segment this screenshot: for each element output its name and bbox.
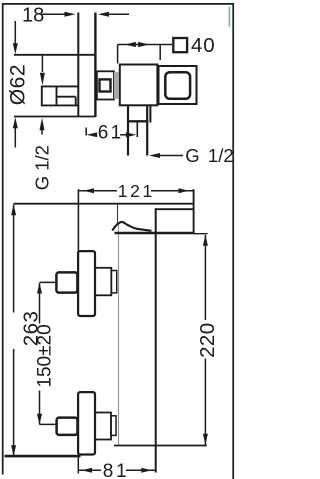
outlet bottom line + 220 bottom ext: [114, 445, 207, 447]
valve body square: [120, 65, 158, 106]
dimension 220 line lower: [204, 359, 206, 445]
lower handle connector: [95, 413, 111, 440]
upper handle escutcheon: [78, 251, 95, 316]
dimension 121 left arrow: [84, 188, 95, 193]
pipe inner hook: [75, 97, 77, 106]
frame border: [2, 3, 234, 479]
supply pipe top edge: [42, 85, 79, 87]
pipe inner lower edge: [57, 96, 76, 98]
dimension 18 left arrow: [65, 12, 76, 17]
lower handle stub: [111, 416, 116, 436]
lower handle escutcheon: [78, 392, 95, 454]
body width arrows: [125, 42, 136, 47]
G 1/2 right leader: [158, 155, 183, 157]
dimension 150+-20 line: [39, 283, 41, 324]
dimension 61 right ext: [136, 123, 138, 138]
outlet stub outer right: [149, 106, 151, 123]
column front line dark upper segment: [117, 204, 119, 223]
outlet stub bottom bar: [127, 120, 148, 122]
svg-text:220: 220: [196, 322, 219, 357]
dimension 81 right line: [126, 469, 155, 471]
81 left ext: [77, 457, 79, 474]
head bottom thick line: [115, 232, 194, 235]
svg-text:18: 18: [22, 5, 44, 27]
dimension 121 left ext (down to escutcheon): [77, 189, 79, 252]
knob outer square (front view): [159, 66, 197, 104]
150+-20 top tick: [40, 281, 58, 283]
spout underside: [155, 208, 193, 210]
svg-text:G 1/2: G 1/2: [32, 145, 53, 190]
outlet stub left: [127, 106, 129, 156]
dimension 18 right arrow: [98, 12, 109, 17]
cyan cursor mark: [228, 7, 230, 27]
spout front face / 121 right ext: [193, 189, 195, 233]
escutcheon bottom edge: [14, 116, 95, 118]
svg-text:G 1/2: G 1/2: [185, 145, 233, 166]
escutcheon back line: [77, 13, 79, 118]
dimension 263 line: [13, 205, 15, 313]
dimension 61 left hook: [85, 128, 87, 136]
263 bottom ext line: [5, 455, 81, 458]
dimension O62 bottom arrow: [14, 128, 16, 148]
knob inner rounded square: [165, 72, 190, 99]
dimension 121 line left: [78, 190, 117, 192]
pipe inner divider vertical: [56, 86, 58, 105]
square-40 symbol: [173, 38, 187, 52]
outlet stub inner right: [146, 106, 148, 156]
220 top ext tail: [194, 233, 208, 235]
wall line: [94, 13, 96, 118]
lower handle knob: [57, 418, 78, 435]
upper handle connector: [95, 268, 111, 296]
connector gray insert: [114, 72, 119, 99]
dimension 220 line upper: [204, 235, 206, 320]
upper handle knob: [56, 272, 77, 292]
G 1/2 upper leader arrow (points down at pipe): [41, 56, 43, 73]
body width dim line: [118, 44, 173, 46]
dimension 121 right arrow: [179, 188, 190, 193]
body width dim left hook: [117, 45, 119, 64]
svg-text:61: 61: [98, 123, 124, 144]
wave break curve: [112, 222, 151, 231]
supply pipe left end: [41, 86, 43, 107]
column right edge: [155, 208, 157, 472]
150+-20 bottom tick: [40, 423, 58, 425]
svg-text:40: 40: [191, 34, 215, 57]
escutcheon top edge: [14, 54, 95, 56]
svg-text:121: 121: [118, 181, 155, 201]
dimension 81 left arrow: [82, 468, 93, 473]
dimension 18 left line: [41, 13, 70, 15]
svg-text:150±20: 150±20: [34, 324, 55, 387]
column top edge + 263 top ext: [14, 203, 195, 205]
body width dim right hook: [159, 45, 161, 61]
dimension 18 right line: [103, 13, 129, 15]
upper handle stub: [111, 271, 116, 293]
connector inner square: [100, 79, 111, 91]
dimension 121 line right: [151, 190, 193, 192]
dimension 61 right arrow: [126, 132, 137, 137]
column front light line: [118, 223, 120, 446]
dimension O62 top arrow: [14, 21, 16, 44]
dimension 61 right line: [120, 134, 131, 136]
svg-text:Ø62: Ø62: [6, 64, 29, 106]
G 1/2 lower leader arrow (points up at escutcheon bottom): [41, 130, 43, 135]
svg-text:81: 81: [103, 461, 129, 479]
wall connector box: [97, 71, 114, 99]
dimension 61 left arrow: [86, 132, 97, 137]
supply pipe bottom edge: [42, 104, 79, 106]
